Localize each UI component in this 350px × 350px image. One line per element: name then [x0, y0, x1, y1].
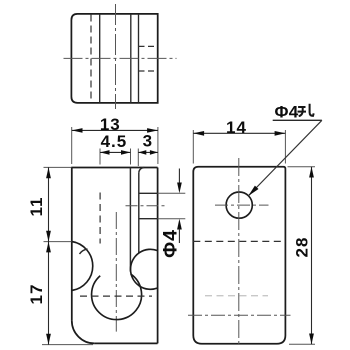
svg-text:Φ4: Φ4 [160, 229, 182, 258]
front view right edge [157, 168, 159, 344]
side view faint hidden line (hole bottom) [205, 295, 268, 297]
dim 28 arrow top [309, 167, 314, 178]
dim 4.5 arrow right [121, 150, 131, 155]
dim phi4 lower arrow (points up) [177, 219, 182, 230]
front view hole upper line [139, 192, 158, 194]
dim 14 extension line left [192, 130, 194, 164]
svg-text:28: 28 [293, 237, 312, 258]
front view top edge [71, 167, 157, 169]
front view slot right wall [129, 168, 131, 272]
side view hidden line (ear level, dashed) [193, 240, 285, 242]
front view bottom edge [95, 342, 158, 344]
dim 28 extension line top [288, 166, 316, 168]
label phi4-hole leader line [248, 120, 322, 196]
top view vertical centerline [115, 4, 117, 109]
dim 17 arrow top (points up to 241.6) [46, 242, 51, 253]
front view left ear arc [72, 242, 93, 291]
dim 11/17 dimension line [48, 167, 50, 344]
front view central circle [92, 274, 142, 320]
front view step fillet [139, 168, 145, 173]
front view left ear curl [80, 249, 88, 254]
dim 13 dimension line [72, 129, 158, 131]
dim 13 / dim 3 shared extension line right [157, 127, 159, 164]
dim 13 extension line left [71, 127, 73, 164]
front view top edge extension (left, for dim 11) [44, 166, 72, 168]
dim 3 arrow right [150, 150, 158, 155]
svg-text:17: 17 [27, 284, 46, 305]
front view right ear arc [131, 249, 158, 289]
side view vertical centerline [238, 158, 240, 347]
top view hidden dashed vertical line [90, 15, 92, 103]
dim 17 arrow bottom [46, 334, 51, 345]
dim 11 arrow top [46, 167, 51, 178]
dim 3 dimension line [138, 151, 158, 153]
dim 14 dimension line [193, 132, 285, 134]
svg-text:11: 11 [27, 197, 46, 217]
dim 14 arrow left [193, 131, 204, 136]
dim phi4 extension line lower [158, 218, 186, 220]
dim 4.5 dimension line [100, 151, 131, 153]
top view solid vertical line (slot left) [99, 14, 101, 103]
top view horizontal centerline [64, 57, 177, 59]
svg-text:3: 3 [143, 132, 152, 151]
front view bottom-left corner arc [72, 321, 95, 344]
dim 14 extension line right [284, 130, 286, 164]
front view hole lower line [139, 218, 158, 220]
svg-text:14: 14 [226, 118, 247, 137]
svg-text:4.5: 4.5 [101, 132, 128, 151]
dim phi4 lower stub line [178, 229, 180, 243]
side view hole circle [226, 192, 252, 218]
dim 4.5 extension line left [99, 149, 101, 165]
side view outline [193, 167, 285, 344]
dim 3 arrow left [138, 150, 146, 155]
top view solid vertical line (step) [138, 14, 140, 103]
top view solid vertical line (slot right) [130, 14, 132, 103]
dim 4.5 arrow left [100, 150, 110, 155]
dim 28 arrow bottom [309, 334, 314, 345]
label phi4-hole leader arrow [248, 186, 258, 196]
front view left edge [71, 168, 73, 321]
svg-text:Φ4: Φ4 [275, 103, 299, 122]
dim 11/17 mid extension line [44, 241, 72, 243]
dim 28 extension line bottom [289, 343, 315, 345]
side view dash-dot line (lower) [188, 314, 291, 316]
dim 4.5 extension line right [130, 149, 132, 165]
dim phi4 upper arrow (points down) [177, 183, 182, 194]
dim phi4 extension line upper [158, 192, 186, 194]
top view outline [71, 14, 157, 103]
front view hidden hole bottom centerline (dashed) [80, 295, 152, 297]
label phi4-hole underline [273, 119, 322, 121]
label phi4-hole kanji (drawn strokes) [298, 104, 314, 116]
dim 14 arrow right [275, 131, 286, 136]
dim 3 extension line left [137, 149, 139, 167]
front view bottom extension line (left, for dim 17) [42, 344, 93, 346]
dim 13 arrow right [147, 128, 158, 133]
dim 28 dimension line [311, 167, 313, 345]
front view hidden slot left wall (dashed) [99, 193, 101, 244]
front view vertical centerline [115, 212, 117, 332]
dim 11 arrow bottom (points down to 241.6) [46, 231, 51, 242]
front view step line [138, 173, 140, 253]
dim 13 arrow left [72, 128, 83, 133]
top view hidden hole line upper [139, 45, 158, 47]
top view hidden hole line lower [139, 70, 158, 72]
dim phi4 upper stub line [178, 169, 180, 184]
front view hole axis centerline [126, 205, 167, 207]
side view hole horizontal centerline [215, 204, 269, 206]
